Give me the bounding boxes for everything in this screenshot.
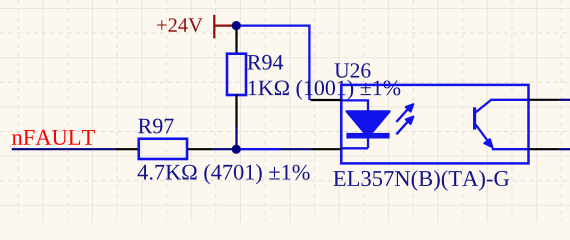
wire collector to right edge (559, 99, 570, 101)
wire R97 to junction (213, 148, 237, 150)
U26 light arrow 2 (396, 117, 413, 135)
net label nFAULT (12, 130, 95, 145)
U26 pin 1 (anode) (311, 99, 342, 101)
resistor R97 (115, 139, 213, 159)
junction node R94/R97/U26 (232, 145, 241, 154)
wire R94 to nFAULT node (235, 127, 237, 149)
wire junction to opto (bright segment) (236, 148, 280, 150)
U26 pin 2 (cathode) (311, 148, 341, 150)
power port +24V (157, 15, 236, 39)
resistor R94 (227, 26, 246, 128)
junction node +24V/R94 (232, 21, 241, 30)
wire nFAULT to R97 (12, 148, 115, 150)
label U26 part number (334, 170, 510, 191)
wire (navy segment) (280, 148, 311, 150)
wire emitter to right edge (559, 148, 570, 150)
U26 LED (342, 100, 390, 148)
label R94 designator (247, 55, 283, 70)
U26 light arrow 1 (396, 104, 413, 122)
U26 pin 3 (emitter) (529, 148, 559, 150)
label R97 value (138, 164, 310, 184)
U26 phototransistor (473, 100, 529, 149)
wire +24V net (blue) from junction to opto pin1 (236, 26, 309, 100)
label U26 designator (335, 63, 371, 77)
U26 pin 4 (collector) (529, 99, 559, 101)
optocoupler U26 body (341, 85, 528, 163)
net label connection cross (10, 146, 16, 152)
label R94 value (249, 80, 401, 100)
label R97 designator (138, 119, 173, 134)
